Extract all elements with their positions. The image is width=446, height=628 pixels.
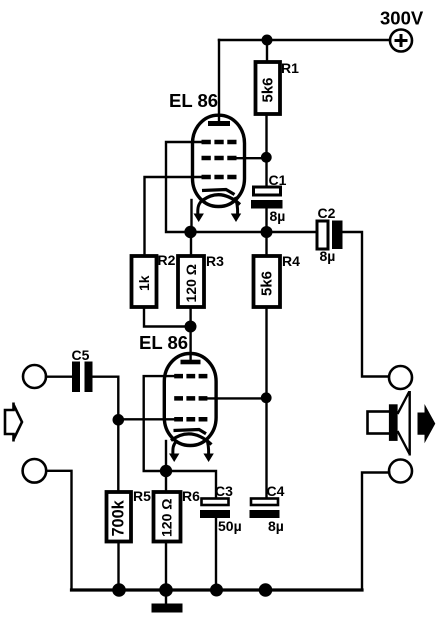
resistor R4 — [254, 256, 281, 307]
wire R6 top lead — [165, 471, 167, 492]
capacitor C1 plate bottom — [251, 200, 283, 209]
wire R4 bottom lead down — [265, 307, 267, 498]
node junction R4 / V2 g2 / C4 — [261, 392, 272, 403]
svg-text:120 Ω: 120 Ω — [159, 499, 175, 537]
svg-text:R5: R5 — [133, 488, 151, 504]
svg-text:50µ: 50µ — [218, 518, 242, 534]
wire V2 g2 to R4 node — [208, 397, 267, 399]
tube V2 grid g1 (bottom row dashes) — [174, 417, 207, 422]
svg-text:C1: C1 — [269, 172, 287, 188]
node junction C5 / V2 g1 / R5 — [113, 414, 125, 426]
capacitor C2 plate right — [332, 221, 343, 250]
svg-text:R1: R1 — [281, 60, 299, 76]
tube V2 cathode arrow left — [169, 441, 179, 462]
node junction cathode rail / R4 / C1 — [261, 226, 273, 238]
svg-text:R2: R2 — [158, 252, 176, 268]
svg-text:700k: 700k — [110, 499, 128, 536]
ground symbol — [152, 590, 183, 613]
svg-text:120 Ω: 120 Ω — [183, 264, 199, 302]
node junction rail / C3 — [210, 584, 223, 597]
wire V1 g2 to screen node — [237, 157, 267, 159]
wire R2 bottom to anode node — [144, 307, 191, 327]
wire R4 top lead — [265, 232, 267, 256]
wire V1 g1 to R2 — [145, 177, 202, 256]
resistor R1 — [256, 62, 281, 114]
tube V1 cathode — [202, 190, 235, 195]
wire R5 top lead — [117, 419, 119, 492]
capacitor C4 plate bottom — [250, 510, 280, 518]
wire R5 bottom lead — [117, 542, 119, 591]
speaker driver box — [368, 412, 392, 434]
capacitor C4 plate top — [251, 499, 278, 506]
resistor R5 — [107, 492, 132, 542]
node junction screen grid / R1 / C1 — [261, 152, 272, 163]
tube V1 cathode arrow left — [194, 200, 204, 222]
wire ground rail bottom — [72, 588, 363, 591]
svg-text:R6: R6 — [182, 488, 200, 504]
tube V1 cathode arrow right — [231, 197, 241, 222]
node junction top rail / R1 — [262, 35, 273, 46]
terminal input top — [23, 365, 46, 388]
node junction rail / input line — [112, 583, 126, 597]
tube V1 envelope — [193, 115, 245, 206]
wire output bottom to ground rail — [362, 473, 389, 591]
wire upper cathode rail — [191, 231, 317, 233]
tube V1 grid g3 (top row dashes) — [202, 140, 237, 145]
wire input to C5 — [46, 376, 72, 378]
wire C1 bottom lead — [265, 209, 267, 233]
capacitor C1 plate top — [254, 187, 281, 195]
svg-text:C2: C2 — [318, 205, 336, 221]
capacitor C3 plate top — [202, 499, 229, 506]
tube V2 anode — [181, 360, 201, 365]
node junction rail / R6 / ground — [159, 583, 173, 597]
svg-text:R3: R3 — [206, 253, 224, 269]
capacitor C5 plate left — [72, 362, 80, 393]
resistor R3 — [178, 256, 204, 307]
tube V1 grid g1 (bottom row dashes) — [202, 175, 237, 180]
svg-text:8µ: 8µ — [270, 208, 286, 224]
wire upper tube anode lead — [218, 40, 220, 121]
terminal output bottom — [389, 460, 412, 483]
svg-text:5k6: 5k6 — [259, 271, 276, 296]
wire V1 cathode lead — [190, 200, 192, 232]
svg-text:8µ: 8µ — [268, 518, 284, 534]
capacitor C2 plate left — [317, 221, 328, 249]
wire R6 bottom lead — [165, 542, 167, 591]
tube V1 anode — [208, 121, 230, 126]
terminal input bottom — [23, 459, 47, 483]
resistor R2 — [132, 256, 157, 307]
terminal output top — [389, 366, 412, 389]
node junction rail / C4 — [259, 583, 273, 597]
tube V2 heater arc — [171, 434, 212, 445]
wire C5 to grid node — [93, 377, 119, 420]
wire R1 top lead — [266, 40, 268, 62]
tube V2 cathode arrow right — [203, 438, 213, 462]
svg-text:300V: 300V — [380, 8, 424, 29]
tube V1 heater arc — [203, 195, 240, 205]
node junction V2 cathode / R6 / C3 — [160, 465, 172, 477]
capacitor C3 plate bottom — [200, 510, 230, 518]
wire R1 bottom lead to C1 — [265, 114, 267, 186]
capacitor C5 plate right — [85, 362, 93, 393]
node junction R2/R3/V2 anode — [185, 321, 197, 333]
symbol output arrow — [418, 404, 436, 443]
wire R3 bottom to V2 anode — [189, 307, 191, 360]
wire V2 g1 to C5 node — [118, 418, 174, 420]
svg-text:C3: C3 — [215, 483, 233, 499]
tube V1 grid g2 (middle row dashes) — [202, 156, 237, 161]
wire V2 cathode lead — [165, 441, 167, 471]
tube V2 grid g3 (top row dashes) — [174, 374, 207, 379]
speaker cone — [398, 391, 410, 456]
tube V2 cathode — [174, 430, 207, 434]
wire input bottom to ground rail — [46, 471, 71, 590]
svg-text:C4: C4 — [267, 483, 285, 499]
terminal 300V plus — [390, 30, 412, 52]
svg-text:R4: R4 — [282, 253, 300, 269]
symbol input arrow — [5, 403, 22, 442]
svg-text:EL 86: EL 86 — [139, 332, 188, 353]
svg-text:8µ: 8µ — [320, 248, 336, 264]
svg-text:C5: C5 — [72, 347, 90, 363]
resistor R6 — [154, 492, 181, 542]
tube V2 envelope — [164, 354, 216, 446]
wire V2 g3 to cathode node (L wire) — [144, 376, 175, 471]
wire V1 g3 to cathode rail (L wire) — [166, 142, 202, 232]
speaker pole bar — [389, 404, 398, 441]
wire C2 to speaker terminal — [343, 232, 390, 377]
svg-text:1k: 1k — [136, 275, 152, 291]
svg-text:EL 86: EL 86 — [169, 90, 218, 111]
wire lower cathode rail to C3 — [166, 471, 216, 498]
tube V2 grid g2 (middle row dashes) — [174, 396, 207, 401]
wire R3 top lead — [190, 232, 192, 256]
svg-text:5k6: 5k6 — [260, 77, 277, 102]
wire top supply rail from anode corner to 300V terminal — [219, 39, 390, 41]
node junction cathode rail left — [184, 226, 196, 238]
wire C3 bottom lead — [215, 518, 217, 590]
